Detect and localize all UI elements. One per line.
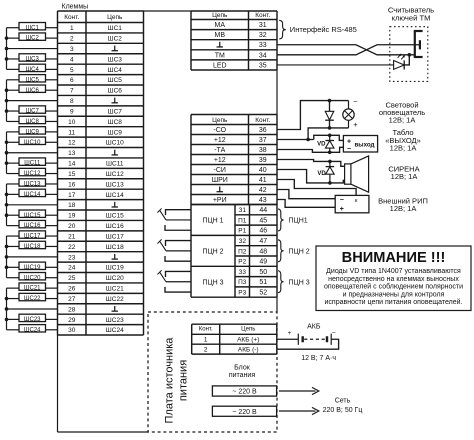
wire ШС13 right — [46, 183, 58, 185]
svg-text:42: 42 — [259, 187, 267, 194]
junction VD2 bottom — [328, 151, 332, 155]
brace ПЦН2 — [278, 240, 284, 262]
svg-text:23: 23 — [68, 254, 76, 261]
junction group 4 c — [5, 213, 9, 217]
wire ШС2 left — [7, 37, 20, 39]
loop ШС7 box — [19, 106, 46, 113]
svg-text:33: 33 — [259, 42, 267, 49]
svg-text:ПЦН 3: ПЦН 3 — [202, 279, 223, 286]
svg-text:50: 50 — [259, 269, 267, 276]
junction lamp diode top — [328, 99, 332, 103]
svg-text:ШС19: ШС19 — [106, 265, 124, 272]
loop ШС23 box — [19, 314, 46, 321]
wire ШС22 left — [7, 298, 20, 300]
svg-text:исправности цепи питания опове: исправности цепи питания оповещателей. — [325, 298, 463, 306]
svg-text:ШС13: ШС13 — [24, 182, 41, 188]
battery terminal table — [192, 324, 277, 354]
svg-text:47: 47 — [259, 238, 267, 245]
svg-text:6: 6 — [70, 77, 74, 84]
wire ШС19 right — [46, 266, 58, 268]
junction lamp diode bottom — [328, 126, 332, 130]
relay K2 contact arm — [160, 241, 166, 251]
TM reader dashed box — [390, 27, 428, 82]
svg-text:ШС16: ШС16 — [24, 223, 41, 229]
svg-text:Цепь: Цепь — [212, 12, 228, 19]
svg-text:18: 18 — [68, 202, 76, 209]
mains input box 1 — [212, 386, 276, 396]
junction VD3 top — [328, 160, 332, 164]
svg-text:19: 19 — [68, 213, 76, 220]
svg-text:44: 44 — [259, 207, 267, 214]
svg-text:З2: З2 — [238, 238, 246, 245]
wire mains 1 arrow — [279, 390, 316, 392]
svg-text:ШС9: ШС9 — [26, 129, 40, 135]
wire ШС24 left — [7, 329, 20, 331]
svg-text:1: 1 — [204, 336, 208, 343]
svg-text:21: 21 — [68, 233, 76, 240]
wire ground 42 to RIP — [277, 190, 335, 199]
loop ШС1 box — [19, 23, 46, 30]
wire +12 39 siren top rail — [277, 160, 345, 167]
svg-text:ШС7: ШС7 — [26, 109, 40, 115]
diode VD3 — [329, 161, 331, 166]
svg-text:АКБ (-): АКБ (-) — [238, 346, 259, 353]
svg-text:43: 43 — [259, 197, 267, 204]
svg-text:Интерфейс RS-485: Интерфейс RS-485 — [290, 25, 357, 34]
svg-text:12 В; 7 А·ч: 12 В; 7 А·ч — [301, 355, 336, 362]
loop ШС11 box — [19, 158, 46, 165]
relay K2 contact NC — [166, 241, 192, 247]
svg-text:+: + — [353, 120, 358, 129]
svg-text:+РИ: +РИ — [213, 197, 227, 204]
svg-text:ШС4: ШС4 — [26, 67, 40, 73]
loop ШС14 box — [19, 189, 46, 196]
wire +РИ 43 — [277, 200, 335, 208]
svg-text:10: 10 — [68, 119, 76, 126]
wire bus group 3 — [6, 132, 8, 174]
diode VD2 — [329, 135, 331, 140]
svg-text:52: 52 — [259, 289, 267, 296]
svg-text:ШС1: ШС1 — [26, 25, 40, 31]
wire ground to TM reader shell (crossing) — [277, 45, 415, 55]
junction VD3 bottom — [328, 181, 332, 185]
svg-text:ШС6: ШС6 — [26, 88, 40, 94]
svg-text:~ 220 В: ~ 220 В — [232, 409, 257, 416]
relay K1 contact NO — [165, 225, 191, 230]
svg-text:ШС4: ШС4 — [108, 67, 123, 74]
svg-text:ШС21: ШС21 — [24, 286, 41, 292]
svg-text:ШС18: ШС18 — [24, 244, 41, 250]
power board dashed box — [148, 312, 277, 432]
svg-text:ТМ: ТМ — [215, 52, 225, 59]
svg-text:14: 14 — [68, 161, 76, 168]
svg-text:8: 8 — [70, 98, 74, 105]
loop ШС20 box — [19, 273, 46, 280]
svg-text:ключей ТМ: ключей ТМ — [392, 13, 431, 22]
junction group 5 b — [5, 255, 9, 259]
svg-text:45: 45 — [259, 217, 267, 224]
svg-text:ШС14: ШС14 — [24, 192, 41, 198]
LED VD4 of TM reader — [394, 61, 405, 70]
svg-text:24: 24 — [68, 265, 76, 272]
tablo ВЫХОД box — [343, 136, 377, 153]
wire ШС8 left — [7, 120, 20, 122]
svg-text:ШС17: ШС17 — [24, 234, 41, 240]
device outline bottom — [58, 431, 149, 433]
svg-text:Плата источника: Плата источника — [164, 337, 176, 424]
svg-text:ШС15: ШС15 — [24, 213, 41, 219]
svg-text:ШС24: ШС24 — [106, 327, 124, 334]
relay K1 contact NC — [166, 210, 192, 216]
relay K1 pole wire — [166, 219, 191, 221]
svg-text:36: 36 — [259, 127, 267, 134]
LED arrows — [398, 54, 401, 58]
svg-text:ШС11: ШС11 — [24, 161, 41, 167]
loop ШС9 box — [19, 127, 46, 134]
svg-text:−: − — [353, 97, 358, 106]
wire ШС19 left — [7, 266, 20, 268]
svg-text:ШС14: ШС14 — [106, 192, 124, 199]
wire bus group 2 — [6, 80, 8, 122]
svg-text:−: − — [340, 197, 344, 204]
svg-text:ШС19: ШС19 — [24, 265, 41, 271]
wire ШС23 right — [46, 318, 58, 320]
ground symbol terminal 23 — [114, 254, 116, 259]
wire bus group 4 — [6, 184, 8, 226]
wire -СО 36 — [277, 101, 349, 130]
wire ground terminal 13 — [7, 152, 58, 154]
svg-text:ШС16: ШС16 — [106, 223, 124, 230]
loop ШС8 box — [19, 116, 46, 123]
svg-text:ШС20: ШС20 — [24, 275, 41, 281]
svg-text:МА: МА — [215, 22, 226, 29]
ground symbol terminal 28 — [114, 306, 116, 311]
svg-text:3: 3 — [70, 46, 74, 53]
svg-text:-ТА: -ТА — [214, 147, 225, 154]
svg-text:11: 11 — [68, 129, 75, 136]
ground symbol terminal 33 — [219, 42, 221, 47]
svg-text:46: 46 — [259, 228, 267, 235]
wire ШС23 left — [7, 318, 20, 320]
svg-text:ПЦН 2: ПЦН 2 — [289, 248, 310, 255]
svg-text:-СИ: -СИ — [214, 167, 226, 174]
wire ШС12 right — [46, 173, 58, 175]
svg-text:ШС9: ШС9 — [108, 129, 123, 136]
svg-text:ШС22: ШС22 — [24, 296, 41, 302]
svg-text:ШС10: ШС10 — [106, 140, 124, 147]
wire ШС21 right — [46, 287, 58, 289]
svg-text:Конт.: Конт. — [255, 117, 270, 124]
loop ШС5 box — [19, 75, 46, 82]
diode VD1 — [329, 101, 331, 112]
wire АКБ plus — [277, 338, 299, 340]
ground symbol terminal 42 — [219, 187, 221, 192]
svg-text:АКБ (+): АКБ (+) — [237, 336, 259, 343]
svg-text:220 В; 50 Гц: 220 В; 50 Гц — [323, 407, 363, 414]
wire ШС15 right — [46, 214, 58, 216]
wire ШС6 left — [7, 89, 20, 91]
svg-text:ШС10: ШС10 — [24, 140, 41, 146]
svg-text:ШС17: ШС17 — [106, 233, 124, 240]
svg-text:ВНИМАНИЕ !!!: ВНИМАНИЕ !!! — [342, 250, 446, 266]
wire ШРИ 41 — [277, 180, 356, 196]
wire ШС10 right — [46, 141, 58, 143]
relay K3 pole wire — [166, 281, 191, 283]
loop ШС24 box — [19, 325, 46, 332]
wire ШС3 left — [7, 58, 20, 60]
junction group 5 c — [5, 265, 9, 269]
svg-text:питания: питания — [229, 372, 255, 379]
relay K3 contact NC — [166, 271, 192, 277]
svg-text:+12: +12 — [214, 157, 226, 164]
wire ШС5 right — [46, 79, 58, 81]
wire ground terminal 3 — [7, 48, 58, 50]
junction VD2 top — [328, 134, 332, 138]
wire ШС20 left — [7, 277, 20, 279]
svg-text:Цепь: Цепь — [212, 117, 228, 124]
svg-text:Р2: Р2 — [238, 259, 246, 266]
svg-text:1: 1 — [70, 25, 74, 32]
svg-text:37: 37 — [259, 137, 267, 144]
brace RS-485 — [279, 20, 286, 39]
svg-text:МВ: МВ — [215, 32, 226, 39]
svg-text:ПЦН 3: ПЦН 3 — [289, 279, 310, 286]
svg-text:ШС3: ШС3 — [108, 56, 123, 63]
wire ШС14 right — [46, 193, 58, 195]
ground symbol terminal 13 — [114, 150, 116, 155]
svg-text:LED: LED — [213, 62, 227, 69]
svg-text:АКБ: АКБ — [307, 323, 321, 330]
relay K2 pole wire — [166, 250, 191, 252]
PCN relay table (rows 44-52) — [191, 205, 277, 298]
svg-text:и предназначены для контроля: и предназначены для контроля — [343, 291, 445, 298]
svg-text:15: 15 — [68, 171, 76, 178]
wire ШС22 right — [46, 298, 58, 300]
svg-text:ШС22: ШС22 — [106, 296, 124, 303]
wire ШС13 left — [7, 183, 20, 185]
relay K1 contact arm — [160, 210, 166, 220]
svg-text:+12: +12 — [214, 137, 226, 144]
device outline top connector — [144, 10, 192, 12]
wire ШС10 left — [7, 141, 20, 143]
loop ШС4 box — [19, 64, 46, 71]
wire ШС16 left — [7, 225, 20, 227]
loop ШС17 box — [19, 231, 46, 238]
junction group 3 a — [5, 140, 9, 144]
svg-text:−: − — [347, 146, 351, 153]
wire -СИ 40 siren bottom rail — [277, 170, 345, 183]
external RIP box — [335, 195, 369, 212]
svg-text:ПЦН 2: ПЦН 2 — [202, 248, 223, 255]
svg-text:39: 39 — [259, 157, 267, 164]
wire ШС11 left — [7, 162, 20, 164]
svg-text:Клеммы: Клеммы — [62, 4, 89, 11]
wire LED cathode to shell — [404, 55, 409, 65]
wire ground terminal 23 — [7, 256, 58, 258]
svg-text:Конт.: Конт. — [64, 14, 79, 21]
svg-text:17: 17 — [68, 192, 76, 199]
svg-text:22: 22 — [68, 244, 76, 251]
wire ШС8 right — [46, 120, 58, 122]
svg-text:20: 20 — [68, 223, 76, 230]
wire ШС1 right — [46, 27, 58, 29]
svg-text:ШС2: ШС2 — [108, 36, 123, 43]
loop ШС18 box — [19, 241, 46, 248]
wire bus group 1 — [6, 28, 8, 70]
wire ШС9 right — [46, 131, 58, 133]
svg-text:ШС11: ШС11 — [106, 161, 124, 168]
svg-text:Р1: Р1 — [238, 228, 246, 235]
wire tablo top rail — [314, 135, 344, 140]
svg-text:ШС18: ШС18 — [106, 244, 124, 251]
svg-text:30: 30 — [68, 327, 76, 334]
svg-text:51: 51 — [259, 279, 267, 286]
svg-text:-СО: -СО — [213, 127, 226, 134]
junction group 3 b — [5, 151, 9, 155]
wire bus group 5 — [6, 236, 8, 278]
junction group 6 a — [5, 297, 9, 301]
svg-text:выход: выход — [354, 142, 374, 149]
lamp HL1 — [348, 101, 350, 109]
svg-text:16: 16 — [68, 181, 76, 188]
terminal table XT1 (Конт./Цепь rows 1-30) — [58, 11, 144, 335]
junction TM ground/LED — [408, 53, 412, 57]
wire ШС17 right — [46, 235, 58, 237]
loop ШС21 box — [19, 283, 46, 290]
svg-text:−: − — [332, 330, 336, 337]
svg-text:ШС13: ШС13 — [106, 181, 124, 188]
wire LED output — [277, 64, 394, 66]
svg-text:ШС5: ШС5 — [26, 77, 40, 83]
junction group 2 a — [5, 88, 9, 92]
svg-text:34: 34 — [259, 52, 267, 59]
svg-text:12В; 1А: 12В; 1А — [389, 116, 416, 125]
svg-text:ШС24: ШС24 — [24, 327, 41, 333]
svg-text:оповещателей с соблюдением пол: оповещателей с соблюдением полярности — [324, 283, 463, 291]
svg-text:П3: П3 — [238, 279, 247, 286]
svg-text:ШС21: ШС21 — [106, 286, 124, 293]
wire ШС18 right — [46, 245, 58, 247]
loop ШС15 box — [19, 210, 46, 217]
junction group 2 c — [5, 109, 9, 113]
mains input box 2 — [212, 406, 276, 416]
junction group 5 a — [5, 245, 9, 249]
loop ШС6 box — [19, 85, 46, 92]
svg-text:Блок: Блок — [234, 364, 251, 371]
wire ШС21 left — [7, 287, 20, 289]
svg-text:ШС12: ШС12 — [24, 171, 41, 177]
loop ШС22 box — [19, 293, 46, 300]
wire ШС4 right — [46, 68, 58, 70]
wire ШС15 left — [7, 214, 20, 216]
wire +12 37 — [277, 139, 314, 141]
svg-text:48: 48 — [259, 248, 267, 255]
svg-text:Р3: Р3 — [238, 289, 246, 296]
svg-text:ШС15: ШС15 — [106, 213, 124, 220]
wire ШС12 left — [7, 173, 20, 175]
svg-text:ШС3: ШС3 — [26, 57, 40, 63]
svg-text:П2: П2 — [238, 248, 247, 255]
wire АКБ minus — [277, 339, 339, 349]
svg-text:ШС1: ШС1 — [108, 25, 123, 32]
svg-text:ШС23: ШС23 — [24, 317, 41, 323]
svg-text:VD: VD — [317, 171, 326, 177]
svg-text:ШРИ: ШРИ — [212, 177, 228, 184]
device outline right edge lower — [276, 297, 278, 312]
svg-text:ПЦН1: ПЦН1 — [289, 217, 308, 224]
svg-text:Цепь: Цепь — [107, 14, 123, 21]
junction group 1 b — [5, 47, 9, 51]
loop ШС13 box — [19, 179, 46, 186]
wire ground terminal 18 — [7, 204, 58, 206]
svg-text:непосредственно на клеммах вын: непосредственно на клеммах выносных — [328, 276, 459, 283]
ground symbol terminal 8 — [114, 98, 116, 103]
svg-text:38: 38 — [259, 147, 267, 154]
device outline bottom-left — [57, 335, 59, 432]
loop ШС19 box — [19, 262, 46, 269]
svg-text:2: 2 — [204, 346, 208, 353]
svg-text:питания: питания — [178, 360, 190, 401]
svg-text:+: + — [340, 206, 344, 213]
loop ШС10 box — [19, 137, 46, 144]
wire ШС7 right — [46, 110, 58, 112]
svg-text:ШС8: ШС8 — [26, 119, 40, 125]
interface table (МА МВ ТМ LED rows 31-35) — [191, 11, 277, 70]
wire ШС3 right — [46, 58, 58, 60]
loop ШС2 box — [19, 33, 46, 40]
svg-text:4: 4 — [70, 56, 74, 63]
svg-text:7: 7 — [70, 88, 74, 95]
wire ШС14 left — [7, 193, 20, 195]
junction group 1 a — [5, 36, 9, 40]
svg-text:~ 220 В: ~ 220 В — [232, 389, 257, 396]
wire mains 2 arrow — [279, 410, 316, 412]
wire lamp lower rail — [308, 128, 348, 139]
svg-text:ШС7: ШС7 — [108, 108, 123, 115]
svg-text:12В; 1А: 12В; 1А — [390, 144, 417, 153]
wire -ТА 38 tablo bottom rail — [277, 147, 343, 152]
junction group 4 a — [5, 193, 9, 197]
junction group 2 b — [5, 99, 9, 103]
svg-text:5: 5 — [70, 67, 74, 74]
wire ШС20 right — [46, 277, 58, 279]
svg-text:29: 29 — [68, 317, 76, 324]
svg-text:З3: З3 — [238, 269, 246, 276]
loop ШС3 box — [19, 54, 46, 61]
wire TM data (crossing) — [277, 45, 419, 55]
battery GB1 — [297, 334, 299, 345]
svg-text:Диоды VD типа 1N4007 устанавли: Диоды VD типа 1N4007 устанавливаются — [326, 268, 461, 275]
wire ШС1 left — [7, 27, 20, 29]
wire ШС4 left — [7, 68, 20, 70]
TM probe contact symbol — [414, 30, 416, 57]
svg-text:32: 32 — [259, 32, 267, 39]
svg-text:26: 26 — [68, 286, 76, 293]
svg-text:ПЦН 1: ПЦН 1 — [202, 217, 223, 224]
svg-text:2: 2 — [70, 36, 74, 43]
wire ШС18 left — [7, 245, 20, 247]
svg-text:13: 13 — [68, 150, 76, 157]
svg-text:ШС12: ШС12 — [106, 171, 124, 178]
svg-text:З1: З1 — [238, 207, 246, 214]
junction group 6 b — [5, 307, 9, 311]
wire ground terminal 28 — [7, 308, 58, 310]
svg-text:25: 25 — [68, 275, 76, 282]
wire ШС2 right — [46, 37, 58, 39]
junction group 4 b — [5, 203, 9, 207]
svg-text:Сеть: Сеть — [335, 398, 351, 405]
svg-text:ШС20: ШС20 — [106, 275, 124, 282]
